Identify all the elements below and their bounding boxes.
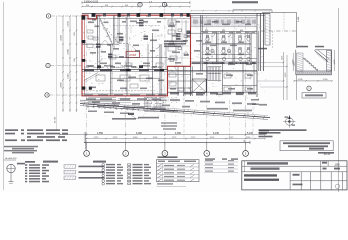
top grid bubble 5 bbox=[138, 2, 142, 13]
area schedule bbox=[204, 158, 238, 172]
north compass bbox=[283, 115, 295, 127]
compass notes bbox=[259, 129, 307, 137]
svg-text:1,820: 1,820 bbox=[133, 67, 138, 69]
stairwell treads bbox=[208, 67, 222, 81]
svg-text:910: 910 bbox=[158, 67, 161, 69]
svg-text:2,550: 2,550 bbox=[246, 137, 251, 139]
legend list 2 bbox=[102, 163, 123, 185]
outer walls bbox=[82, 13, 270, 97]
svg-text:1,210: 1,210 bbox=[334, 60, 336, 65]
door schedule table bbox=[157, 156, 200, 186]
right dimension ladder bbox=[251, 48, 296, 105]
interior walls bbox=[82, 15, 257, 96]
svg-text:GL=FH+150: GL=FH+150 bbox=[5, 158, 17, 160]
inline dimension text bbox=[84, 16, 243, 69]
sheet right border bbox=[338, 8, 340, 192]
shelving lines bbox=[84, 26, 163, 83]
bottom grid line bbox=[84, 141, 250, 144]
svg-text:GL=FH+150: GL=FH+150 bbox=[113, 67, 123, 69]
left grid bubble row2 bbox=[46, 63, 82, 67]
entrance steps and fence bbox=[86, 98, 139, 115]
notes block 1 bbox=[5, 129, 68, 141]
svg-text:1,820: 1,820 bbox=[120, 16, 125, 18]
right margin small text bbox=[259, 130, 269, 134]
dashed guide lines bbox=[83, 26, 161, 91]
svg-text:2,275: 2,275 bbox=[113, 137, 118, 139]
svg-text:910: 910 bbox=[146, 16, 149, 18]
svg-text:5,100: 5,100 bbox=[247, 132, 254, 135]
svg-text:6,060: 6,060 bbox=[136, 132, 143, 135]
furniture and fixtures bbox=[87, 20, 251, 91]
svg-text:2318: 2318 bbox=[129, 53, 136, 57]
left grid bubble row1 bbox=[46, 14, 82, 18]
plan grid verticals bbox=[87, 16, 246, 96]
legend column symbol bbox=[7, 163, 25, 183]
svg-text:2,730: 2,730 bbox=[151, 67, 156, 69]
hatched canopy band bbox=[191, 17, 257, 27]
corridor wall fills bbox=[84, 65, 163, 71]
stair detail title box bbox=[302, 93, 326, 98]
title block frame bbox=[242, 161, 347, 190]
svg-text:3,030: 3,030 bbox=[68, 49, 70, 55]
left dimension chains bbox=[55, 15, 78, 130]
legend hatch swatches bbox=[64, 165, 105, 180]
red highlight outline bbox=[82, 15, 191, 96]
svg-text:910: 910 bbox=[74, 32, 76, 35]
svg-text:16: 16 bbox=[243, 141, 245, 143]
entrance paving stipple bbox=[118, 97, 179, 112]
svg-text:4,350: 4,350 bbox=[175, 132, 182, 135]
scan speckle bbox=[83, 16, 266, 116]
svg-text:3,075: 3,075 bbox=[210, 137, 215, 139]
top dimension chain bbox=[81, 1, 191, 7]
svg-text:3,030: 3,030 bbox=[133, 137, 138, 139]
svg-text:1,515: 1,515 bbox=[68, 73, 70, 79]
svg-text:25,750: 25,750 bbox=[55, 116, 57, 123]
svg-text:650: 650 bbox=[205, 30, 208, 32]
svg-text:1,200: 1,200 bbox=[323, 79, 328, 81]
revision stamp bbox=[318, 152, 334, 156]
svg-text:4,393: 4,393 bbox=[61, 34, 63, 40]
svg-text:910: 910 bbox=[86, 5, 89, 7]
svg-text:2,150: 2,150 bbox=[68, 21, 70, 27]
stacked label clusters bbox=[96, 20, 181, 58]
site witness lines bbox=[84, 96, 253, 150]
svg-text:910: 910 bbox=[105, 5, 108, 7]
svg-text:2,275: 2,275 bbox=[94, 137, 99, 139]
svg-text:3,030: 3,030 bbox=[293, 60, 295, 65]
svg-text:1,200: 1,200 bbox=[298, 79, 303, 81]
room annotation text bbox=[88, 19, 253, 96]
svg-text:650: 650 bbox=[222, 30, 225, 32]
svg-text:650: 650 bbox=[240, 30, 243, 32]
site boundary lines bbox=[80, 100, 270, 119]
legend list 3 bbox=[128, 164, 152, 184]
top grid bubble 6 bbox=[162, 2, 166, 13]
svg-text:3,030: 3,030 bbox=[153, 137, 158, 139]
svg-text:4,550: 4,550 bbox=[61, 81, 63, 87]
svg-text:910: 910 bbox=[74, 58, 76, 61]
elevator shaft bbox=[192, 79, 206, 93]
bottom grid bubbles bbox=[84, 142, 249, 156]
svg-text:1,515: 1,515 bbox=[84, 67, 89, 69]
site callouts bbox=[112, 110, 178, 129]
upper annotation and bracket bbox=[190, 1, 272, 12]
right corridor wall fills bbox=[84, 62, 256, 96]
left grid bubble row3 bbox=[45, 93, 82, 97]
grid drop lines bbox=[87, 96, 246, 150]
entry stair treads bbox=[100, 19, 115, 49]
east rooms detail bbox=[164, 19, 191, 66]
legend headers bbox=[25, 161, 106, 163]
svg-text:7,425: 7,425 bbox=[281, 56, 283, 61]
title block text bbox=[244, 162, 340, 186]
sheet left border bbox=[3, 2, 5, 190]
svg-text:2,175: 2,175 bbox=[172, 137, 177, 139]
svg-text:1/50: 1/50 bbox=[334, 162, 340, 166]
top right leader lines bbox=[261, 13, 300, 101]
bottom dimension chains bbox=[59, 132, 266, 140]
svg-text:910: 910 bbox=[125, 5, 128, 7]
svg-text:4,550: 4,550 bbox=[97, 132, 104, 135]
svg-text:1FL=GL+500: 1FL=GL+500 bbox=[93, 67, 104, 69]
svg-text:3,150: 3,150 bbox=[285, 73, 287, 78]
wall columns dark bbox=[82, 13, 190, 89]
svg-text:3,075: 3,075 bbox=[229, 137, 234, 139]
svg-text:9,090=14,180: 9,090=14,180 bbox=[84, 1, 99, 3]
svg-text:910: 910 bbox=[98, 16, 101, 18]
svg-text:6,150: 6,150 bbox=[213, 132, 220, 135]
swing doors bbox=[98, 45, 191, 92]
site annotation text bbox=[86, 98, 267, 111]
stair detail bubble bbox=[307, 86, 311, 90]
svg-text:2,175: 2,175 bbox=[191, 137, 196, 139]
legend list 1 bbox=[25, 164, 49, 182]
revision note box bbox=[280, 141, 333, 151]
stair detail drawing bbox=[293, 46, 337, 75]
notes block 2 bbox=[4, 146, 38, 154]
svg-text:5,400: 5,400 bbox=[298, 16, 300, 22]
red room label bbox=[126, 51, 140, 57]
stair detail dimension bbox=[293, 79, 333, 82]
toilet fixtures bbox=[203, 32, 255, 64]
datum note bbox=[4, 158, 18, 160]
